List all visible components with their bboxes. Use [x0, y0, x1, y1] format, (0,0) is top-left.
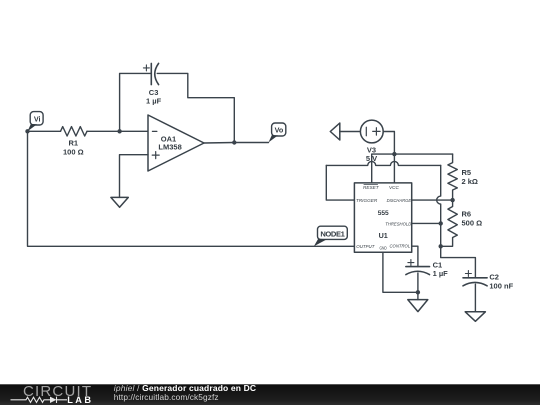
resistor R6 — [441, 200, 482, 246]
svg-text:Vi: Vi — [34, 115, 41, 124]
svg-text:Vo: Vo — [275, 126, 284, 135]
node C1/GND ground junction — [416, 290, 420, 294]
svg-text:500 Ω: 500 Ω — [462, 218, 483, 227]
wire junction up to C3 left plate — [120, 73, 152, 131]
wire DISCHARGE pin to R5/R6 junction — [412, 199, 453, 201]
capacitor C3 — [143, 63, 161, 105]
ground below C2 — [465, 312, 485, 322]
wire V3 positive terminal to VCC riser — [383, 132, 394, 183]
wire op-amp output to Vo — [204, 142, 269, 145]
svg-text:THRESHOLD: THRESHOLD — [385, 221, 412, 226]
svg-text:TRIGGER: TRIGGER — [356, 198, 378, 203]
svg-text:100 nF: 100 nF — [489, 281, 513, 290]
svg-text:VCC: VCC — [389, 185, 400, 190]
svg-text:NODE1: NODE1 — [320, 230, 345, 239]
ic U1 555 — [354, 183, 412, 252]
wire threshold junction down to C2 — [441, 223, 476, 277]
node Vi junction — [25, 129, 29, 133]
svg-text:http://circuitlab.com/ck5gzfz: http://circuitlab.com/ck5gzfz — [114, 392, 219, 402]
op-amp OA1 — [148, 115, 204, 171]
svg-text:DISCHARGE: DISCHARGE — [387, 198, 412, 203]
wire ground node to ground symbol — [417, 292, 419, 299]
ground below op-amp — [111, 197, 128, 207]
svg-text:LAB: LAB — [67, 395, 93, 405]
net label Vi — [28, 112, 44, 132]
node R1 / C3 junction — [117, 129, 121, 133]
wire Vi node down and right to 555 OUTPUT pin (NODE1 net) — [28, 131, 355, 246]
svg-text:R6: R6 — [462, 210, 472, 219]
svg-text:GND: GND — [380, 245, 387, 251]
wire CONTROL pin to C1 — [412, 246, 418, 266]
net label Vo — [269, 123, 286, 142]
ground below C1 — [408, 300, 428, 312]
svg-text:555: 555 — [378, 210, 389, 217]
CircuitLab logo squiggle resistor and diode — [11, 397, 68, 403]
wire THRESHOLD pin to trigger riser — [412, 222, 441, 224]
wire R1 to op-amp inverting input — [87, 130, 148, 132]
svg-text:2 kΩ: 2 kΩ — [462, 177, 478, 186]
voltage source V3 — [360, 120, 383, 163]
svg-text:LM358: LM358 — [158, 142, 181, 151]
net label NODE1 — [314, 226, 347, 246]
node threshold junction — [439, 221, 443, 225]
wire B left end down to TRIGGER pin — [326, 165, 354, 200]
svg-text:1 µF: 1 µF — [433, 269, 449, 278]
node VCC riser / wire A junction — [392, 152, 396, 156]
wire C3 right plate to output node (feedback) — [157, 73, 234, 142]
wire B: trigger rail with hops over RESET and VCC risers — [326, 161, 440, 165]
wire C2 bottom to ground symbol — [474, 284, 476, 312]
resistor R1 — [61, 127, 88, 157]
svg-text:R1: R1 — [69, 139, 79, 148]
capacitor C2 — [463, 271, 514, 291]
svg-text:OUTPUT: OUTPUT — [356, 244, 375, 249]
wire Vi to R1 — [28, 130, 61, 132]
wire B right end down to THRESHOLD with hop over DISCHARGE line — [437, 165, 441, 223]
svg-text:CONTROL: CONTROL — [390, 243, 411, 248]
wire ground to V3 negative terminal — [340, 131, 361, 133]
svg-text:1 µF: 1 µF — [146, 97, 162, 106]
node R5/R6/discharge junction — [450, 198, 454, 202]
ground left of V3 — [330, 123, 340, 140]
capacitor C1 — [406, 260, 448, 278]
footer bar — [0, 384, 540, 405]
wire op-amp non-inverting input to ground — [120, 155, 149, 198]
wire GND pin to ground node — [383, 252, 418, 292]
node output junction — [232, 140, 236, 144]
node R6 bottom junction — [439, 244, 443, 248]
wire A: RESET riser and rail to R5 — [372, 154, 453, 183]
svg-text:U1: U1 — [379, 231, 388, 240]
svg-text:RESET: RESET — [363, 185, 380, 190]
resistor R5 — [448, 154, 478, 200]
svg-text:100 Ω: 100 Ω — [63, 147, 84, 156]
wire C1 bottom to ground node — [417, 273, 419, 292]
